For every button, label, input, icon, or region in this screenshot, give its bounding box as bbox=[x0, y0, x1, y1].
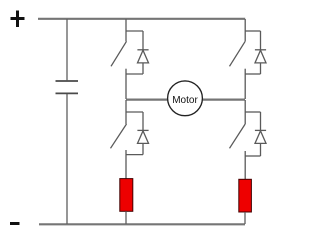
svg-text:Motor: Motor bbox=[172, 95, 198, 106]
